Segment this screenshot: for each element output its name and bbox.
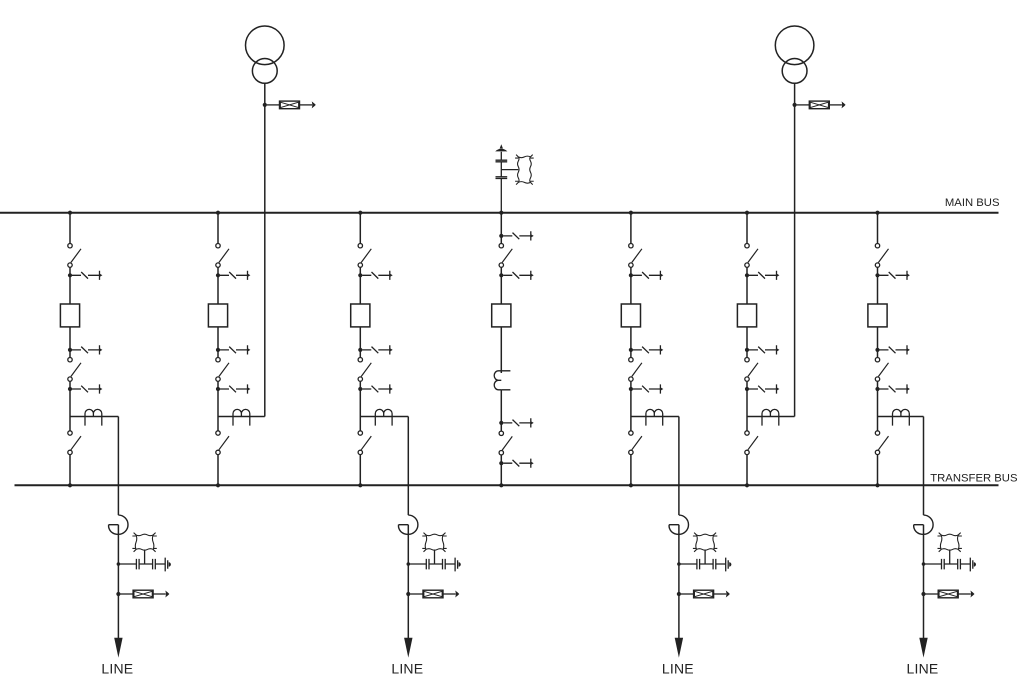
earthing switch ES3b <box>358 271 393 280</box>
junction main bus bay 3 <box>358 211 362 215</box>
wire line-exit riser 1 upper <box>117 417 119 516</box>
wire CVT branch <box>118 563 165 565</box>
disconnect switch DS1-1 <box>68 244 81 268</box>
wire bus dropper bay 4 <box>500 213 502 244</box>
earthing switch ES4a <box>499 231 534 240</box>
disconnect switch DS3-1 <box>358 244 371 268</box>
junction main bus bay 6 <box>745 211 749 215</box>
wire DS3-2 to CT junction <box>359 382 361 417</box>
disconnect switch DS4-1 <box>499 244 512 268</box>
junction main bus bay 4 <box>499 211 503 215</box>
line trap LT3 <box>669 515 688 534</box>
line trap LT2 <box>398 515 417 534</box>
junction main bus bay 2 <box>216 211 220 215</box>
circuit breaker CB3 <box>351 304 370 327</box>
transformer T1 winding 2 <box>252 59 277 84</box>
wire T2 to bay <box>794 83 796 416</box>
transfer disconnect switch DS6-T <box>745 431 758 455</box>
junction transfer bus bay 7 <box>875 483 879 487</box>
earthing switch ES4c <box>499 418 534 427</box>
line trap LT4 <box>914 515 933 534</box>
wire line-exit riser 3 lower <box>678 525 680 639</box>
earthing switch ES5d <box>629 384 664 393</box>
wire bus dropper bay 6 <box>746 213 748 244</box>
coupling capacitor C4a <box>942 559 945 570</box>
surge arrester T1 tap <box>263 101 316 109</box>
wire bus dropper bay 3 <box>359 213 361 244</box>
junction main bus bay 5 <box>629 211 633 215</box>
junction transfer bus bay 5 <box>629 483 633 487</box>
earthing switch ES3c <box>358 345 393 354</box>
junction CVT tap <box>407 562 411 566</box>
wire DS2-1 to breaker <box>217 267 219 304</box>
circuit breaker CB6 <box>737 304 756 327</box>
earthing switch ES1b <box>68 271 103 280</box>
wire to transfer disconnect <box>877 417 879 431</box>
CVT electromagnetic unit 3 <box>693 533 717 552</box>
wire T1 to bay <box>264 83 266 416</box>
junction CVT tap <box>677 562 681 566</box>
junction transfer bus bay 1 <box>68 483 72 487</box>
junction transfer bus bay 3 <box>358 483 362 487</box>
wire line-exit riser 1 lower <box>117 525 119 639</box>
PLCC terminal <box>726 558 729 572</box>
earthing switch ES1d <box>68 384 103 393</box>
earthing switch ES4d <box>499 459 534 468</box>
coupling capacitor C1a <box>136 559 139 570</box>
wire CT branch bay 2 <box>218 416 265 418</box>
current transformer CT1 <box>85 409 102 425</box>
wire to transfer disconnect <box>217 417 219 431</box>
transformer T2 winding 2 <box>782 59 807 84</box>
PLCC terminal <box>455 558 458 572</box>
wire bus dropper bay 7 <box>877 213 879 244</box>
wire line-exit riser 4 lower <box>923 525 925 639</box>
wire DS3-1 to breaker <box>359 267 361 304</box>
disconnect switch DS5-2 <box>629 358 642 382</box>
wire to transfer disconnect <box>746 417 748 431</box>
earthing switch ES6c <box>745 345 780 354</box>
wire line-exit riser 3 upper <box>678 417 680 516</box>
wire DS1-1 to breaker <box>69 267 71 304</box>
CVT electromagnetic unit 1 <box>132 533 156 552</box>
wire to transfer disconnect <box>630 417 632 431</box>
transfer disconnect switch DS3-T <box>358 431 371 455</box>
current transformer CT6 <box>762 409 779 425</box>
main bus <box>0 212 999 214</box>
earthing switch ES2d <box>216 384 251 393</box>
current transformer CT4 vertical <box>494 371 510 390</box>
wire CVT stem <box>949 550 951 565</box>
wire DS7-2 to CT junction <box>877 382 879 417</box>
junction transfer bus bay 6 <box>745 483 749 487</box>
wire CT branch bay 1 <box>70 416 118 418</box>
current transformer CT5 <box>646 409 663 425</box>
transfer disconnect switch DS5-T <box>629 431 642 455</box>
surge arrester T2 tap <box>793 101 846 109</box>
current transformer CT7 <box>893 409 910 425</box>
bus CVT corona dome <box>495 149 507 152</box>
disconnect switch DS7-1 <box>875 244 888 268</box>
wire line-exit riser 2 upper <box>407 417 409 516</box>
bus CVT capacitor Ca <box>496 160 508 162</box>
wire breaker to DS3-2 <box>359 327 361 358</box>
wire CVT branch <box>924 563 971 565</box>
wire DS1-2 to CT junction <box>69 382 71 417</box>
earthing switch ES7c <box>875 345 910 354</box>
surge arrester SA4 <box>921 590 974 598</box>
junction transfer bus bay 2 <box>216 483 220 487</box>
PLCC terminal <box>970 558 973 572</box>
wire breaker to DS6-2 <box>746 327 748 358</box>
wire CVT stem <box>434 550 436 565</box>
coupling capacitor C3b <box>713 559 716 570</box>
junction CVT tap <box>922 562 926 566</box>
wire DS7-1 to breaker <box>877 267 879 304</box>
coupling capacitor C2a <box>426 559 429 570</box>
wire DS5-2 to CT junction <box>630 382 632 417</box>
current transformer CT3 <box>375 409 392 425</box>
transfer disconnect switch DS1-T <box>68 431 81 455</box>
disconnect switch DS4-2 <box>499 431 512 455</box>
disconnect switch DS5-1 <box>629 244 642 268</box>
bus CVT capacitor Cb <box>496 177 508 179</box>
svg-text:LINE: LINE <box>907 661 939 677</box>
svg-text:LINE: LINE <box>391 661 423 677</box>
wire CVT stem <box>704 550 706 565</box>
bus CVT electromagnetic unit <box>515 155 534 185</box>
wire to transfer bus <box>217 455 219 486</box>
coupling capacitor C1b <box>153 559 156 570</box>
wire line-exit riser 4 upper <box>923 417 925 516</box>
wire bus dropper bay 5 <box>630 213 632 244</box>
earthing switch ES2b <box>216 271 251 280</box>
CVT electromagnetic unit 2 <box>422 533 446 552</box>
bus CVT antenna arrow <box>500 144 503 148</box>
current transformer CT2 <box>233 409 250 425</box>
wire to transfer bus <box>69 455 71 486</box>
disconnect switch DS7-2 <box>875 358 888 382</box>
disconnect switch DS3-2 <box>358 358 371 382</box>
earthing switch ES5c <box>629 345 664 354</box>
wire CT branch bay 5 <box>631 416 679 418</box>
circuit breaker CB2 <box>208 304 227 327</box>
wire breaker to DS1-2 <box>69 327 71 358</box>
wire to transfer bus <box>500 455 502 485</box>
earthing switch ES7d <box>875 384 910 393</box>
surge arrester SA2 <box>406 590 459 598</box>
disconnect switch DS2-1 <box>216 244 229 268</box>
wire CT branch bay 3 <box>360 416 408 418</box>
coupling capacitor C2b <box>443 559 446 570</box>
wire DS5-1 to breaker <box>630 267 632 304</box>
earthing switch ES5b <box>629 271 664 280</box>
transfer disconnect switch DS7-T <box>875 431 888 455</box>
transfer disconnect switch DS2-T <box>216 431 229 455</box>
wire DS6-2 to CT junction <box>746 382 748 417</box>
wire DS6-1 to breaker <box>746 267 748 304</box>
wire breaker to DS2-2 <box>217 327 219 358</box>
earthing switch ES3d <box>358 384 393 393</box>
disconnect switch DS1-2 <box>68 358 81 382</box>
wire DS2-2 to CT junction <box>217 382 219 417</box>
line arrow 2 <box>404 638 412 658</box>
transfer bus <box>15 484 999 486</box>
PLCC terminal <box>165 558 168 572</box>
wire CVT branch <box>408 563 455 565</box>
wire CT branch bay 6 <box>747 416 795 418</box>
junction CVT tap <box>117 562 121 566</box>
earthing switch ES4b <box>499 271 534 280</box>
surge arrester SA3 <box>677 590 730 598</box>
earthing switch ES2c <box>216 345 251 354</box>
wire CVT stem <box>144 550 146 565</box>
coupling capacitor C4b <box>958 559 961 570</box>
junction main bus bay 1 <box>68 211 72 215</box>
line arrow 3 <box>675 638 683 658</box>
svg-text:LINE: LINE <box>662 661 694 677</box>
circuit breaker CB5 <box>621 304 640 327</box>
transformer T1 winding 1 <box>245 26 284 65</box>
surge arrester SA1 <box>116 590 169 598</box>
earthing switch ES7b <box>875 271 910 280</box>
wire bus dropper bay 1 <box>69 213 71 244</box>
wire breaker to DS5-2 <box>630 327 632 358</box>
earthing switch ES1c <box>68 345 103 354</box>
wire bus CVT stack <box>500 152 502 213</box>
wire to transfer disconnect <box>69 417 71 431</box>
wire CT to DS4-2 <box>500 390 502 431</box>
line trap LT1 <box>109 515 128 534</box>
disconnect switch DS6-1 <box>745 244 758 268</box>
wire to transfer bus <box>877 455 879 486</box>
junction transfer bus bay 4 <box>499 483 503 487</box>
wire breaker to DS7-2 <box>877 327 879 358</box>
coupling capacitor C3a <box>697 559 700 570</box>
wire line-exit riser 2 lower <box>407 525 409 639</box>
wire to transfer bus <box>630 455 632 486</box>
earthing switch ES6d <box>745 384 780 393</box>
wire to transfer bus <box>359 455 361 486</box>
line arrow 1 <box>114 638 122 658</box>
wire to transfer bus <box>746 455 748 486</box>
disconnect switch DS6-2 <box>745 358 758 382</box>
wire breaker to CT <box>500 327 502 373</box>
transformer T2 winding 1 <box>775 26 814 65</box>
wire DS4-1 to breaker <box>500 267 502 304</box>
wire CVT branch <box>679 563 726 565</box>
wire to transfer disconnect <box>359 417 361 431</box>
wire bus dropper bay 2 <box>217 213 219 244</box>
disconnect switch DS2-2 <box>216 358 229 382</box>
earthing switch ES6b <box>745 271 780 280</box>
circuit breaker CB7 <box>868 304 887 327</box>
wire bus CVT tap <box>501 169 518 171</box>
svg-text:LINE: LINE <box>101 661 133 677</box>
svg-text:TRANSFER BUS: TRANSFER BUS <box>930 473 1018 485</box>
circuit breaker CB1 <box>60 304 79 327</box>
line arrow 4 <box>919 638 927 658</box>
wire CT branch bay 7 <box>878 416 924 418</box>
junction main bus bay 7 <box>875 211 879 215</box>
circuit breaker CB4 <box>492 304 511 327</box>
svg-text:MAIN BUS: MAIN BUS <box>945 197 1000 209</box>
CVT electromagnetic unit 4 <box>938 533 962 552</box>
